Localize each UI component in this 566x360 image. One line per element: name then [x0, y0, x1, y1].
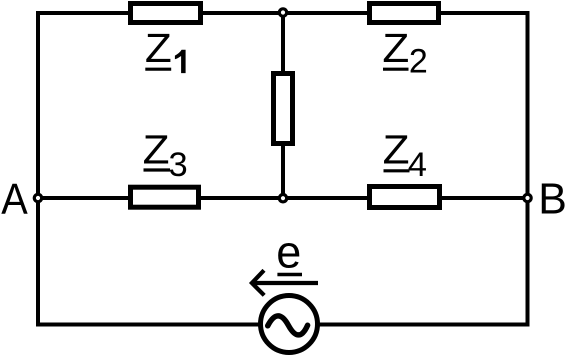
wire middle horizontal A to B — [36, 196, 530, 200]
resistor Z3 — [131, 187, 199, 207]
label Z2 underline — [383, 68, 409, 71]
svg-text:Z: Z — [383, 126, 410, 172]
resistor Z5 middle vertical — [274, 74, 293, 144]
label e underline — [277, 273, 302, 276]
svg-text:4: 4 — [408, 146, 427, 184]
label Z4 underline — [384, 169, 410, 172]
node top middle junction — [279, 9, 286, 16]
source sine wave — [268, 316, 308, 335]
svg-text:Z: Z — [145, 25, 172, 71]
svg-text:A: A — [1, 176, 28, 224]
node A junction — [34, 194, 41, 201]
source circle — [261, 296, 318, 353]
arrow head — [252, 270, 264, 295]
arrow shaft for e (pointing left) — [252, 281, 318, 285]
resistor Z4 — [370, 187, 440, 208]
wire left vertical — [36, 11, 40, 327]
node middle junction — [279, 195, 286, 202]
wire bottom horizontal — [36, 323, 530, 327]
resistor Z2 — [370, 4, 439, 23]
node B junction — [524, 194, 531, 201]
svg-text:2: 2 — [409, 43, 428, 81]
wire middle vertical branch — [281, 13, 285, 198]
svg-text:Z: Z — [382, 25, 409, 71]
label Z1 subscript 1 — [175, 50, 186, 73]
svg-text:B: B — [538, 176, 566, 224]
label Z1 underline — [145, 68, 171, 71]
resistor Z1 — [131, 4, 201, 23]
svg-text:Z: Z — [143, 126, 170, 172]
label Z3 underline — [144, 168, 171, 171]
svg-text:3: 3 — [169, 146, 188, 184]
wire top horizontal — [36, 11, 530, 15]
wire right vertical — [526, 11, 530, 327]
svg-text:e: e — [276, 227, 301, 278]
